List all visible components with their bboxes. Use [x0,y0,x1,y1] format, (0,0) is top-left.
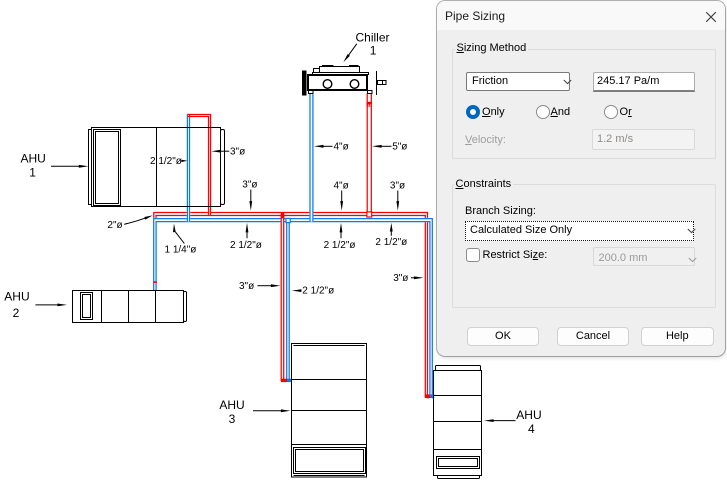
label 5 dia chiller red [372,142,407,153]
label 4 dia chiller blue [314,142,349,153]
node red union on chiller riser [367,102,372,107]
label 3 dia AHU4 [393,273,423,284]
svg-text:3: 3 [229,412,236,426]
node red foot AHU4 [425,395,431,398]
wire blue return manifold with AHU2 drop and AHU4 drop [154,219,435,398]
svg-text:3"ø: 3"ø [230,146,245,157]
svg-text:3"ø: 3"ø [242,179,257,190]
svg-text:3"ø: 3"ø [393,273,408,284]
label 2 1/2 dia AHU3 blue [292,285,334,296]
svg-text:4"ø: 4"ø [334,181,349,192]
node blue foot AHU3 [287,379,292,382]
label Chiller 1 [343,31,389,63]
wire red drop to AHU3 over blue manifold [281,214,284,381]
label AHU 1 [21,151,89,179]
svg-text:4"ø: 4"ø [334,142,349,153]
svg-text:2: 2 [13,306,20,320]
AHU1 unit [89,128,225,207]
label 2 1/2 dia at AHU1 riser [150,156,187,167]
svg-text:Chiller: Chiller [356,31,390,45]
svg-text:2 1/2"ø: 2 1/2"ø [302,285,334,296]
svg-text:1 1/4"ø: 1 1/4"ø [165,244,197,255]
svg-text:3"ø: 3"ø [390,181,405,192]
label 3 dia manifold left [242,179,257,210]
label 2 dia manifold left end [107,215,152,231]
node red tick on AHU2 drop [153,281,156,283]
svg-text:3"ø: 3"ø [239,281,254,292]
label 2 1/2 dia below manifold 1 [230,223,262,251]
AHU4 unit [434,366,482,479]
label AHU 2 [4,290,67,320]
node red junction chiller riser [367,212,372,217]
node red foot AHU3 [281,379,287,382]
label 2 1/2 dia below manifold 3 [375,223,407,248]
label 4 dia manifold center [334,181,349,211]
svg-text:2 1/2"ø: 2 1/2"ø [230,240,262,251]
svg-text:AHU: AHU [516,408,541,422]
svg-text:4: 4 [528,422,535,436]
node blue foot AHU4 [430,395,434,398]
svg-text:5"ø: 5"ø [392,142,407,153]
node blue tee fitting AHU3 drop [286,218,290,222]
wire blue drop to AHU3 [287,219,290,381]
chiller U1 [303,66,387,96]
wire blue riser AHU1 [187,114,189,222]
label 3 dia manifold right [390,181,405,211]
AHU2 unit [73,291,187,323]
label 3 dia AHU3 red [239,281,281,292]
label 3 dia at AHU1 red riser [211,146,245,157]
svg-text:2 1/2"ø: 2 1/2"ø [375,237,407,248]
svg-text:AHU: AHU [21,151,46,165]
wire red jog patch over blue riser AHU1 [188,115,191,117]
svg-text:AHU: AHU [219,398,244,412]
svg-text:1: 1 [29,165,36,179]
svg-text:2 1/2"ø: 2 1/2"ø [150,156,182,167]
wire red supply manifold main run to AHU4 [154,213,430,398]
label AHU 3 [219,398,290,426]
wire blue drop chiller 4in [310,93,313,221]
svg-text:2 1/2"ø: 2 1/2"ø [324,240,356,251]
AHU3 unit [292,344,367,478]
svg-text:1: 1 [370,44,377,58]
label AHU 4 [484,408,542,436]
node red tee fitting AHU3 drop [281,213,284,218]
svg-text:AHU: AHU [4,290,29,304]
label 1 1/4 dia [165,224,197,256]
wire red riser AHU1 with top jog [187,115,210,215]
label 2 1/2 dia below manifold 2 [324,223,356,251]
svg-text:2"ø: 2"ø [107,220,122,231]
wire red riser chiller 5in [367,93,371,215]
